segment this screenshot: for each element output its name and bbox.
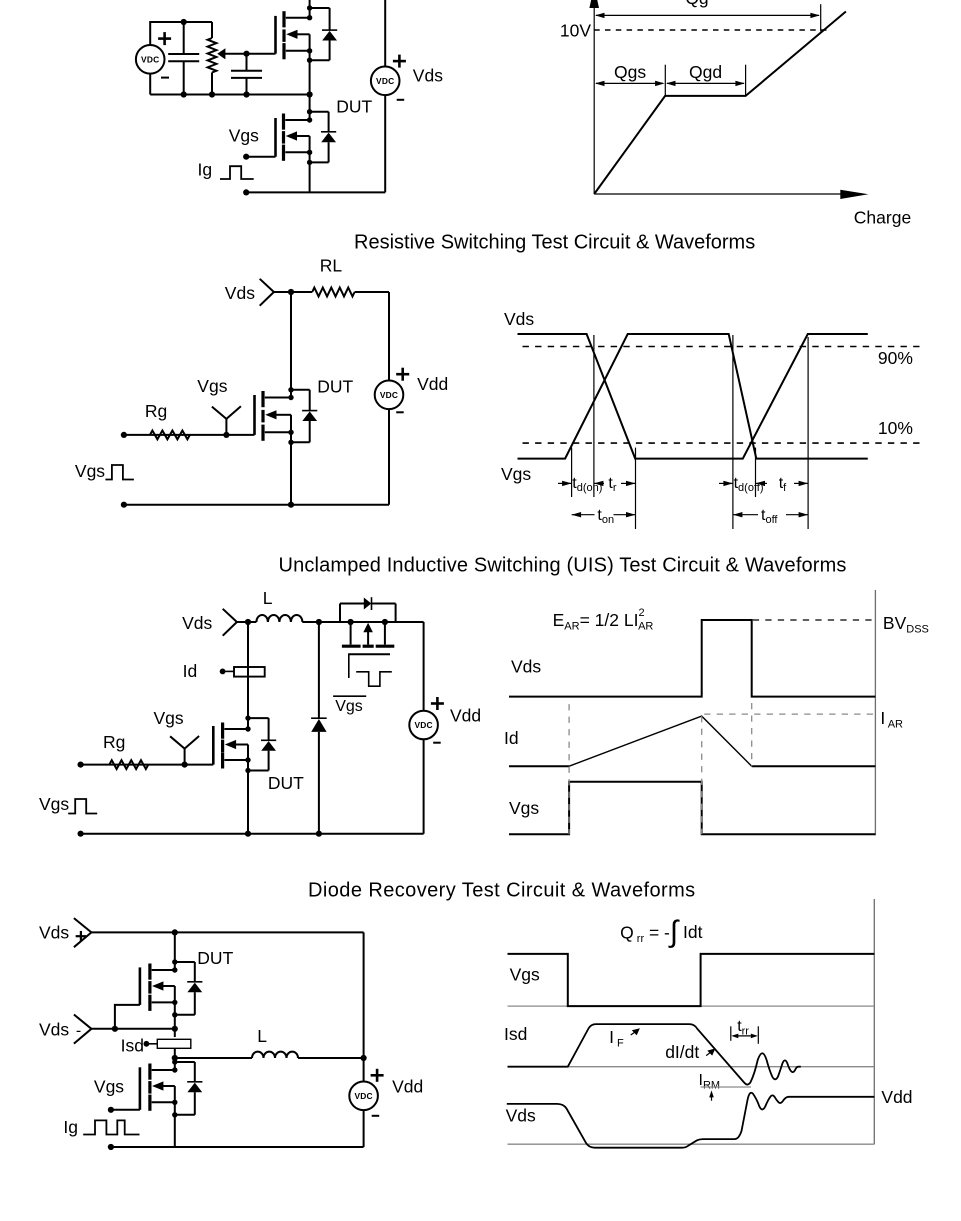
bottom wire [111,1146,364,1148]
Ig pulse symbol [220,166,254,179]
svg-text:10%: 10% [878,418,913,438]
Vds trace [507,1093,875,1148]
wire Vgs terminal to DUT gate [246,156,275,158]
V2 minus label [397,99,405,101]
svg-text:VDC: VDC [376,76,394,86]
node bottom left terminal [78,831,84,837]
extension line 2 [593,335,595,497]
dashed marker t0 [568,704,570,834]
voltage source V3 (Vdd) [375,381,404,410]
node gate branch [112,1026,118,1032]
Vds trace [518,334,868,459]
MOSFET Q2 (DUT) [276,95,337,193]
dashed marker t2 [751,703,753,766]
right rail lower [363,1110,365,1147]
wire bottom rail of gate-drive loop [150,94,309,96]
svg-text:Vds: Vds [504,309,534,329]
Qgd dimension arrow [667,82,744,84]
10V dashed level [594,29,827,31]
wire C1 top leg [183,22,185,54]
pot wiper arrow [217,48,225,59]
svg-text:90%: 90% [878,348,913,368]
diode D4 lower wire [318,732,320,834]
Vds- probe symbol [74,1015,92,1044]
svg-text:Vdd: Vdd [450,706,481,726]
bottom wire to Vds source [246,191,385,193]
top wire inductor to clamp [302,621,423,623]
wire V1 top to rail [150,22,212,45]
90% dashed line [523,346,921,348]
svg-text:Qgd: Qgd [689,62,722,82]
node DUT source bottom [288,502,294,508]
Qg tick [820,4,822,31]
bottom wire [124,504,389,506]
V3 minus label [396,411,404,413]
svg-text:Diode Recovery Test Circuit &: Diode Recovery Test Circuit & Waveforms [308,880,696,902]
clamp MOSFET Q4 (rotated) [342,622,394,678]
IF arrow [631,1031,637,1035]
top wire RL to rail [355,291,389,293]
node cap C1 top [181,19,187,25]
wire wiper to gate Q1 [225,53,276,55]
svg-text:Vdd: Vdd [417,374,448,394]
svg-text:Resistive Switching Test Circu: Resistive Switching Test Circuit & Wavef… [354,232,755,254]
svg-text:Vgs: Vgs [39,794,69,814]
node DUT drain top [172,929,178,935]
capacitor C1 [168,54,199,61]
trr right tick [757,1026,759,1044]
tf left arrow [756,482,768,484]
node fork junction [223,432,229,438]
V1 plus label [158,32,171,45]
wire C1 bottom leg [183,61,185,94]
right boundary line [874,590,876,835]
svg-text:Qg: Qg [685,0,708,8]
svg-text:Vgs: Vgs [94,1076,124,1096]
wire right rail bottom [384,95,386,192]
node L to rail [361,1055,367,1061]
clamp diode loop left leg [339,604,341,623]
svg-text:Rg: Rg [145,401,167,421]
extension line 3 [635,448,637,529]
svg-text:Id: Id [504,728,519,748]
V4 plus label [431,697,444,710]
svg-text:Vgs: Vgs [510,965,540,985]
node Rg left terminal [121,432,127,438]
diode branch D4 wire [318,622,320,718]
diode D4 [311,717,327,719]
center vertical to L junction [174,1049,176,1062]
node pot bottom [209,91,215,97]
Vgs probe fork [212,406,241,435]
node DUT source bottom [245,831,251,837]
label Vgs-bar overline [333,695,366,697]
wire pot top lead [211,22,213,38]
right rail upper [423,622,425,711]
clamp diode loop top wire [340,603,365,605]
wire gate branch up [115,1005,140,1029]
IRM level line [701,1086,751,1088]
Vgs zero line [508,1005,875,1007]
wire C2 bottom leg [246,78,248,95]
right rail lower [388,409,390,505]
MOSFET Q7 (lower) [140,1059,203,1147]
svg-text:Vds: Vds [39,923,69,943]
top wire probe to RL [274,291,312,293]
wire right rail top [384,0,386,67]
svg-text:VDC: VDC [354,1091,372,1101]
tr right arrow [621,482,636,484]
wire probe2 to center [91,1028,174,1030]
svg-text:Qgs: Qgs [614,62,646,82]
V5 minus label [372,1115,380,1117]
right rail upper [363,932,365,1081]
dI/dt arrow [706,1051,712,1055]
node drain junction top [288,289,294,295]
IRM up arrow [711,1094,713,1101]
right rail upper [388,292,390,381]
right rail lower [423,739,425,833]
svg-text:Rg: Rg [103,732,125,752]
svg-text:Vds: Vds [182,613,212,633]
node bottom left terminal [121,502,127,508]
Id trace flat left [509,765,569,767]
current sense Isd resistor [144,1039,191,1048]
clamp diode loop right leg [395,604,397,623]
Id trace flat right [752,765,876,767]
10% dashed line [523,442,921,444]
center vertical upper [174,1029,176,1037]
resistor Rg [109,760,148,769]
node C1 bottom [181,91,187,97]
svg-text:Vds: Vds [225,283,255,303]
Isd zero line [508,1066,875,1068]
trr arrow [733,1035,756,1037]
voltage source V5 (Vdd) [349,1082,378,1111]
Id ramp [569,716,752,766]
BVdss dashed level [753,619,876,621]
Vds trace [509,620,875,697]
td(off) arrow [719,482,733,484]
Vgs gate terminal [243,154,249,160]
extension line 5 [755,448,757,497]
Qgs tick [664,65,666,96]
Vds+ probe symbol [74,918,92,947]
extension line 4 [732,335,734,529]
Vgs pulse symbol [105,465,133,480]
svg-text:10V: 10V [560,20,591,40]
Vds zero line [508,1143,875,1145]
extension line 1 [571,448,573,497]
tr left arrow [594,482,604,484]
Ig double pulse symbol [83,1120,139,1134]
right boundary line [873,899,875,1144]
MOSFET Q6 (DUT upper) [140,932,203,1028]
capacitor C2 [231,71,262,78]
svg-text:Vgs: Vgs [75,461,105,481]
bottom rail [81,833,424,835]
clamp diode D3 [364,598,372,610]
node diode branch top [316,619,322,625]
Vgs trace [518,334,868,459]
voltage source V4 (Vdd) [409,711,438,740]
inductor L [252,1052,298,1058]
svg-text:Vdd: Vdd [881,1087,912,1107]
gate wire Rg to Q5 [81,764,214,766]
svg-text:Isd: Isd [121,1036,144,1056]
top wire [91,931,363,933]
dashed marker t1 [701,716,703,834]
top wire probe to inductor [237,621,257,623]
MOSFET Q1 (upper, gate-charge driver) [276,5,338,94]
Y axis arrowhead [589,0,599,8]
MOSFET Q5 (DUT) [213,715,276,833]
svg-text:Isd: Isd [504,1024,527,1044]
svg-text:Vds: Vds [506,1106,536,1126]
resistor Rg [150,431,190,440]
Qgd tick [745,65,747,96]
gate wire Rg to Q3 [124,434,255,436]
svg-text:Vgs: Vgs [197,376,227,396]
wire gate Q7 [111,1109,140,1111]
wire pot bottom lead [211,73,213,95]
node wiper junction [243,51,249,57]
X axis arrowhead [840,190,868,199]
IAR dashed level [704,713,875,715]
svg-text:Charge: Charge [854,208,911,228]
extension line 6 [807,337,809,529]
svg-text:Vds: Vds [413,66,443,86]
td(on) arrow [558,482,572,484]
svg-text:Ig: Ig [198,160,213,180]
L wire right [298,1057,364,1059]
node diode bottom [316,831,322,837]
inductor L [256,615,302,622]
svg-text:L: L [257,1026,267,1046]
node rail to Q1 source / DUT drain [307,91,313,97]
svg-text:VDC: VDC [141,54,159,64]
Vds probe symbol [223,609,237,636]
Vgs probe fork [170,736,199,765]
svg-text:Vgs: Vgs [501,464,531,484]
node fork junction [182,762,188,768]
ton arrow [572,514,595,516]
Isd trace [508,1024,801,1085]
Vds probe symbol [260,279,274,306]
L wire left [175,1057,252,1059]
resistor RL [312,288,354,297]
svg-text:L: L [263,588,273,608]
svg-text:Unclamped Inductive Switching: Unclamped Inductive Switching (UIS) Test… [279,555,847,577]
tf right arrow [794,482,808,484]
node Rg left terminal [78,762,84,768]
svg-text:Vgs: Vgs [335,698,363,715]
toff arrow [733,514,758,516]
node Ig bottom terminal [243,189,249,195]
MOSFET Q3 (DUT) [255,387,318,505]
gate-charge X axis [594,193,841,195]
voltage source V2 (Vds supply) [371,67,400,96]
svg-text:Id: Id [183,661,198,681]
V2 plus label [393,55,406,68]
V3 plus label [396,368,409,381]
svg-text:VDC: VDC [414,720,432,730]
svg-text:dI/dt: dI/dt [665,1042,699,1062]
node clamp left stub [348,619,354,625]
DUT drain wire upper [247,622,249,718]
Qgs dimension arrow [596,82,663,84]
DUT drain wire [290,292,292,398]
svg-text:Ig: Ig [63,1117,78,1137]
svg-text:DUT: DUT [197,948,233,968]
svg-text:DUT: DUT [268,773,304,793]
gate terminal Q7 [108,1107,114,1113]
gate-charge curve [594,12,846,195]
svg-text:DUT: DUT [317,376,353,396]
svg-text:Vgs: Vgs [509,798,539,818]
Qg dimension arrow [596,14,819,16]
Vgs trace [508,954,875,1006]
gate-charge Y axis [593,2,595,194]
node L junction [172,1055,178,1061]
node probe2 to vertical [172,1026,178,1032]
wire C2 top leg [246,54,248,71]
plus sign probe1 [76,931,87,942]
V5 plus label [371,1069,384,1082]
node C2 bottom [243,91,249,97]
svg-text:Vdd: Vdd [392,1077,423,1097]
node clamp right stub [382,619,388,625]
trr left tick [730,1026,732,1041]
wire V1 bottom [149,74,151,95]
V1 minus label [161,77,169,79]
node drain top junction [245,619,251,625]
svg-text:VDC: VDC [380,390,398,400]
svg-text:RL: RL [320,256,343,276]
svg-text:DUT: DUT [336,97,372,117]
node bottom left terminal [108,1144,114,1150]
current sense Id resistor [220,667,265,677]
svg-text:Vds: Vds [511,657,541,677]
voltage source V1 (gate drive VDC) [136,45,165,74]
Vgs trace [509,782,875,835]
potentiometer R1 [208,38,217,73]
V4 minus label [433,742,441,744]
svg-text:Vgs: Vgs [154,708,184,728]
svg-text:Vds: Vds [39,1020,69,1040]
Vgs pulse symbol [68,799,97,814]
svg-text:Vgs: Vgs [229,126,259,146]
wire Q1 drain to top edge [309,0,311,8]
clamp gate inverted pulse symbol [356,672,392,686]
